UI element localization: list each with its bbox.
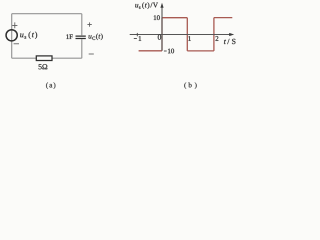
voltage source US circle: [6, 30, 17, 41]
waveform riser at t=2: [213, 18, 215, 51]
tick label -1: [139, 36, 141, 41]
resistor R box: [36, 56, 52, 61]
wire top: [12, 13, 82, 15]
wire left: [11, 14, 13, 59]
capacitor C plates: [76, 36, 86, 38]
label uC(t) of capacitor: [89, 34, 103, 41]
value label 10: [154, 15, 160, 20]
tick label 2: [216, 36, 219, 41]
waveform segment +10 level t>2: [214, 17, 232, 19]
arrowhead of t axis: [229, 33, 234, 36]
waveform riser at t=0: [161, 18, 163, 51]
caption (b): [184, 82, 196, 88]
axis label us(t)/V: [135, 2, 158, 9]
minus sign of -10: [164, 50, 167, 52]
waveform us(t) square wave segment -10 level t=-1..0: [139, 50, 162, 52]
polarity - of source: [14, 43, 19, 45]
waveform segment -10 level t=1..2: [187, 50, 214, 52]
axis label t/S: [224, 39, 235, 44]
minus sign of -1: [134, 38, 137, 40]
arrowhead of us axis: [160, 3, 163, 8]
wire right: [81, 14, 83, 59]
axis t horizontal: [130, 34, 232, 36]
value label -10: [168, 49, 174, 54]
value label 5 ohm: [39, 64, 48, 69]
axis us vertical: [161, 6, 163, 51]
polarity - of capacitor: [89, 53, 94, 55]
polarity + of source: [12, 22, 17, 28]
wire bottom: [12, 57, 82, 59]
tick at t=-1: [136, 33, 138, 36]
tick label 0: [158, 35, 161, 40]
polarity + of capacitor: [87, 22, 91, 26]
waveform segment +10 level t=0..1: [162, 17, 187, 19]
label us(t) of source: [20, 32, 37, 39]
tick label 1: [188, 36, 190, 41]
caption (a): [46, 82, 55, 89]
waveform drop at t=1: [186, 18, 188, 51]
value label 1F: [66, 34, 72, 38]
